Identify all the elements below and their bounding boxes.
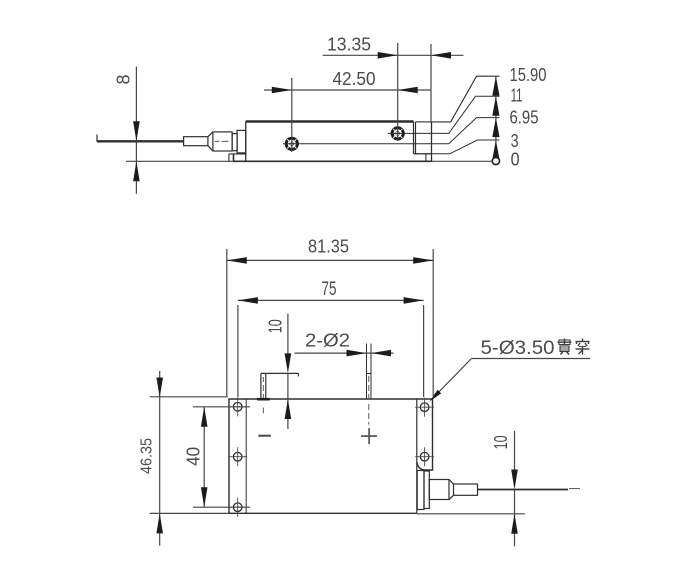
label 5-diam3.50 through-hole: leader shelf	[472, 358, 591, 360]
stack arrow to 11	[492, 96, 499, 116]
terminal pin right (straight, plus)	[366, 344, 368, 400]
leader arrowhead	[430, 390, 442, 402]
stack arrow to 15.90	[492, 76, 499, 96]
mounting hole bottom-left	[228, 498, 247, 517]
svg-text:11: 11	[511, 86, 523, 106]
dimension 2-diam2: dim line and arrows	[295, 352, 394, 354]
connector flange at module face	[237, 130, 246, 153]
stack arrow to 3	[492, 140, 499, 160]
origin circle at 0 level	[492, 157, 499, 164]
module body side view: left face	[245, 122, 247, 162]
svg-text:40: 40	[184, 447, 204, 466]
plan view bottom edge	[229, 512, 417, 514]
svg-text:3: 3	[511, 131, 519, 151]
svg-text:8: 8	[114, 74, 134, 84]
polarity minus mark	[258, 435, 271, 437]
connector taper	[449, 480, 454, 485]
svg-text:6.95: 6.95	[510, 107, 539, 127]
base plate tick right	[425, 154, 427, 162]
mounting hole top-right	[415, 398, 434, 417]
dimension 40: dim line and arrows	[203, 407, 205, 507]
svg-text:2-Ø2: 2-Ø2	[305, 331, 350, 351]
svg-text:15.90: 15.90	[510, 65, 547, 85]
hanzi guan (through) stroke drawing	[558, 339, 572, 355]
connector barrel	[429, 480, 449, 500]
module right face	[431, 122, 433, 161]
extension line at module right edge	[430, 44, 432, 122]
screw 1 (left, on centerline)	[286, 138, 297, 149]
screw 2 (right)	[392, 128, 403, 139]
wire lead 2 (to 11 level, through screw2 centerline)	[388, 96, 500, 133]
leader line	[432, 359, 472, 400]
svg-text:46.35: 46.35	[139, 438, 156, 474]
dimension 10 (fiber offset): dim line and arrows	[514, 431, 516, 484]
top view: fiber pigtail line	[97, 140, 184, 142]
stack arrow to 6.95	[492, 118, 499, 138]
svg-text:0: 0	[511, 150, 520, 170]
hanzi chuan (pierce) stroke drawing	[576, 339, 590, 355]
dimension 42.50: dim line and arrows	[264, 89, 431, 91]
inner shelf line y=153.8	[414, 153, 432, 155]
ferrule taper	[208, 132, 213, 137]
40 extension lines through holes	[193, 406, 250, 408]
ferrule step section	[232, 134, 237, 151]
svg-text:5-Ø3.50: 5-Ø3.50	[481, 338, 555, 359]
bottom edge extension line to the right	[417, 513, 525, 515]
screw 1 vertical extension line (42.50 datum)	[291, 78, 293, 152]
connector nose	[454, 484, 478, 495]
connector flange	[424, 471, 429, 509]
left flange inner line	[245, 399, 247, 513]
inner wall near right end	[413, 122, 415, 154]
75 extension lines down to hole centers	[237, 305, 239, 397]
plan view module outline	[229, 399, 433, 513]
svg-text:42.50: 42.50	[333, 69, 376, 89]
fiber ferrule: tip cylinder	[184, 137, 208, 146]
plan view fiber line	[478, 489, 569, 491]
wire lead 3 (to 6.95 level, through screw1 centerline)	[283, 118, 500, 144]
ferrule barrel	[213, 132, 232, 151]
base plate step under connector	[229, 153, 246, 155]
right flange inner line / lower right edge	[416, 399, 418, 513]
screw 2 vertical extension line (13.35 datum)	[397, 43, 399, 141]
left pin hidden centerline	[262, 377, 264, 382]
left pin base mark	[257, 398, 270, 401]
mounting hole top-left	[228, 397, 247, 416]
46.35 extension lines	[150, 396, 228, 398]
dimension 75: dim line and arrows	[238, 299, 424, 301]
right pin hidden centerline	[368, 376, 370, 382]
81.35 extension lines	[226, 249, 228, 396]
mounting hole mid-left	[228, 447, 247, 466]
dimension 8 (fiber height): dim line, arrows, text	[135, 67, 137, 194]
module top edge (thick)	[246, 120, 414, 123]
mounting hole mid-right	[415, 447, 434, 466]
wire lead 4 (to 3 level)	[414, 140, 500, 154]
svg-text:10: 10	[491, 435, 511, 449]
dimension 46.35: dim line and arrows	[159, 371, 161, 546]
plan view fiber connector: strip	[417, 471, 424, 510]
terminal pin left (bent lug, minus)	[260, 373, 262, 399]
dimension 10 (pin height): dim line and arrows	[287, 314, 289, 369]
top edge of lower right step	[416, 121, 432, 123]
dimension 13.35: dim line and arrows	[323, 54, 464, 56]
ordinate dimension stack line	[495, 76, 497, 161]
svg-text:10: 10	[266, 319, 286, 333]
polarity plus mark	[361, 435, 377, 437]
wire lead 1 (to 15.90 level)	[432, 76, 500, 122]
baseline / 0-level line (module bottom extended)	[126, 160, 500, 162]
svg-text:13.35: 13.35	[327, 35, 371, 55]
svg-text:75: 75	[322, 279, 337, 300]
svg-text:81.35: 81.35	[308, 237, 349, 257]
dimension 81.35: dim line and arrows	[227, 259, 433, 261]
